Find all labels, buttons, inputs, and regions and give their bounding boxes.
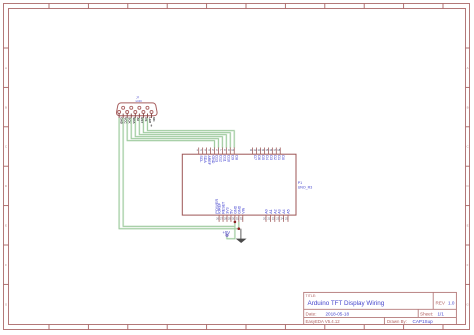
svg-text:VCC: VCC bbox=[124, 117, 128, 124]
svg-text:E: E bbox=[5, 224, 7, 228]
svg-text:D5: D5 bbox=[261, 155, 265, 160]
svg-text:3: 3 bbox=[204, 148, 206, 152]
svg-text:D4: D4 bbox=[265, 155, 269, 160]
svg-text:D10: D10 bbox=[227, 155, 231, 162]
svg-text:D6: D6 bbox=[257, 155, 261, 160]
svg-text:2018-05-18: 2018-05-18 bbox=[326, 311, 350, 316]
svg-text:6: 6 bbox=[216, 148, 218, 152]
svg-text:GND: GND bbox=[211, 155, 215, 163]
svg-text:SDA: SDA bbox=[203, 155, 207, 163]
svg-text:REV: REV bbox=[436, 301, 446, 306]
svg-text:8: 8 bbox=[224, 148, 226, 152]
svg-text:4: 4 bbox=[208, 148, 210, 152]
svg-text:1/1: 1/1 bbox=[438, 311, 445, 316]
svg-text:D8: D8 bbox=[234, 155, 238, 160]
svg-text:D3: D3 bbox=[269, 155, 273, 160]
svg-text:D9: D9 bbox=[231, 155, 235, 160]
svg-text:D13: D13 bbox=[215, 155, 219, 162]
svg-text:D1: D1 bbox=[277, 155, 281, 160]
svg-text:1: 1 bbox=[196, 148, 198, 152]
svg-text:F: F bbox=[5, 263, 7, 267]
svg-text:2: 2 bbox=[200, 148, 202, 152]
svg-text:A3: A3 bbox=[278, 209, 282, 213]
svg-text:A: A bbox=[467, 66, 469, 70]
svg-text:G: G bbox=[5, 302, 8, 306]
svg-text:RST: RST bbox=[140, 117, 144, 123]
svg-text:SDA: SDA bbox=[132, 117, 136, 124]
svg-text:Sheet:: Sheet: bbox=[420, 311, 433, 316]
svg-text:D7: D7 bbox=[253, 155, 257, 160]
svg-text:D0: D0 bbox=[281, 155, 285, 160]
svg-text:D12: D12 bbox=[219, 155, 223, 162]
svg-text:F: F bbox=[467, 263, 469, 267]
svg-text:A0: A0 bbox=[136, 117, 140, 121]
svg-text:Drawn By:: Drawn By: bbox=[387, 319, 407, 324]
svg-text:LCD: LCD bbox=[136, 99, 143, 103]
svg-text:D2: D2 bbox=[273, 155, 277, 160]
svg-text:A4: A4 bbox=[282, 209, 286, 213]
svg-text:B: B bbox=[467, 105, 469, 109]
svg-text:A1: A1 bbox=[269, 209, 273, 213]
svg-text:AREF: AREF bbox=[207, 155, 211, 165]
svg-text:Arduino TFT Display Wiring: Arduino TFT Display Wiring bbox=[308, 300, 385, 307]
svg-text:TITLE:: TITLE: bbox=[306, 294, 317, 298]
svg-text:9: 9 bbox=[228, 148, 230, 152]
svg-text:CAP1Sup: CAP1Sup bbox=[413, 319, 434, 324]
svg-text:UNO_R3: UNO_R3 bbox=[298, 185, 313, 189]
svg-text:C: C bbox=[5, 145, 8, 149]
svg-text:SCK: SCK bbox=[128, 117, 132, 124]
svg-text:A: A bbox=[5, 66, 7, 70]
svg-text:9: 9 bbox=[151, 124, 153, 128]
svg-text:GND: GND bbox=[120, 117, 124, 125]
svg-text:POWER: POWER bbox=[214, 199, 219, 214]
svg-text:Date:: Date: bbox=[306, 311, 317, 316]
svg-text:A2: A2 bbox=[273, 209, 277, 213]
svg-text:B: B bbox=[5, 105, 7, 109]
svg-text:G: G bbox=[466, 302, 469, 306]
svg-text:CS: CS bbox=[144, 117, 148, 121]
svg-text:A0: A0 bbox=[265, 209, 269, 213]
svg-text:SCL: SCL bbox=[199, 155, 203, 162]
svg-text:D: D bbox=[5, 184, 8, 188]
svg-text:1.0: 1.0 bbox=[448, 301, 455, 306]
svg-text:P1: P1 bbox=[298, 181, 302, 185]
svg-text:VIN: VIN bbox=[241, 207, 245, 213]
svg-text:A5: A5 bbox=[287, 209, 291, 213]
svg-text:E: E bbox=[467, 224, 469, 228]
svg-text:D11: D11 bbox=[223, 155, 227, 161]
svg-text:7: 7 bbox=[220, 148, 222, 152]
svg-text:EasyEDA V5.4.12: EasyEDA V5.4.12 bbox=[306, 319, 341, 324]
svg-text:5: 5 bbox=[212, 148, 214, 152]
